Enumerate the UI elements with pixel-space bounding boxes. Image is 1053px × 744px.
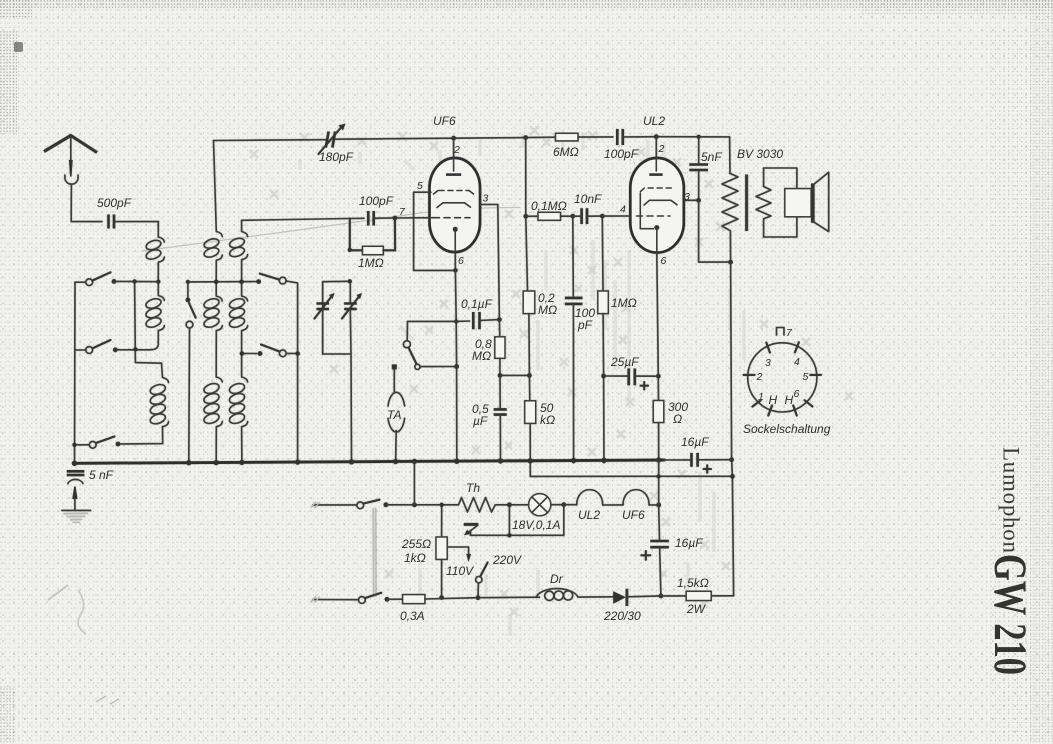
- heater UF6: [603, 504, 623, 506]
- line pin4: [523, 214, 528, 219]
- svg-text:Th: Th: [466, 481, 480, 495]
- line 1M vert: [601, 216, 604, 291]
- ground arrow: [72, 487, 77, 500]
- svg-text:H: H: [785, 393, 794, 407]
- svg-text:1kΩ: 1kΩ: [404, 551, 426, 565]
- UF6 anode: [437, 203, 471, 208]
- tube UF6: [430, 158, 481, 252]
- svg-text:6: 6: [458, 255, 464, 267]
- svg-text:Lumophon: Lumophon: [999, 447, 1024, 554]
- tube socket circle: [748, 343, 817, 412]
- power switch upper: [357, 502, 364, 509]
- diode 220/30: [613, 591, 626, 604]
- left rail: [74, 282, 77, 463]
- svg-text:6: 6: [661, 255, 667, 267]
- socket pin ticks: [744, 342, 822, 415]
- svg-text:UF6: UF6: [433, 114, 456, 128]
- resistor 1M UL2 grid: [598, 291, 609, 314]
- svg-text:16µF: 16µF: [681, 435, 709, 449]
- UF6 pin3 lead: [480, 205, 499, 320]
- UL2 pin2 lead: [655, 137, 657, 171]
- thermistor Th: [459, 498, 510, 513]
- wire antenna to 500pF: [71, 184, 102, 222]
- power switch lower: [359, 597, 366, 604]
- svg-text:3: 3: [684, 191, 690, 203]
- wire heater line: [386, 504, 459, 506]
- capacitor 16uF vertical: [650, 541, 669, 547]
- svg-text:GW 210: GW 210: [984, 554, 1036, 675]
- switch S3: [75, 444, 90, 446]
- tap 110V: [447, 547, 468, 555]
- svg-text:3: 3: [765, 357, 771, 369]
- resistor 0,8M: [498, 320, 500, 337]
- svg-text:kΩ: kΩ: [540, 413, 555, 427]
- resistor 1M grid: [350, 219, 363, 251]
- line UL2 cathode to bottom: [658, 460, 661, 541]
- pickup switch: [408, 320, 457, 322]
- svg-text:UF6: UF6: [622, 508, 645, 522]
- svg-text:0,1µF: 0,1µF: [461, 297, 493, 311]
- riser to bus: [413, 461, 415, 504]
- speaker magnet bar: [811, 183, 815, 222]
- svg-text:2: 2: [756, 371, 763, 383]
- svg-text:Ω: Ω: [673, 412, 682, 426]
- transformer T1 left winding: [203, 141, 223, 464]
- bus junction dots: [72, 461, 77, 466]
- fuse 0,3A: [387, 598, 403, 600]
- svg-text:100pF: 100pF: [604, 147, 639, 161]
- UL2 cathode: [654, 225, 659, 230]
- svg-text:110V: 110V: [446, 564, 474, 578]
- svg-text:2: 2: [658, 143, 665, 155]
- svg-text:25µF: 25µF: [610, 355, 639, 369]
- link wire to 0,2M line: [500, 374, 529, 376]
- transformer core: [745, 175, 748, 232]
- lamp shunt wire: [470, 505, 563, 536]
- top bus wire: [214, 138, 526, 141]
- svg-text:16µF: 16µF: [675, 536, 703, 550]
- node bracket top: [348, 279, 352, 283]
- resistor 6M: [526, 136, 556, 138]
- tube UL2: [630, 158, 684, 253]
- band switch lower arm: [242, 353, 257, 355]
- wire to choke: [478, 596, 540, 599]
- switch link dashed: [373, 508, 376, 597]
- main bus: [75, 460, 665, 463]
- svg-text:3: 3: [483, 193, 489, 205]
- grid node wire: [350, 217, 364, 219]
- trimmer capacitor 180pF: [326, 132, 335, 148]
- svg-text:5 nF: 5 nF: [89, 468, 114, 482]
- svg-text:BV 3030: BV 3030: [737, 147, 783, 161]
- transformer T1 right winding: [228, 220, 247, 463]
- svg-text:18V,0,1A: 18V,0,1A: [512, 518, 560, 532]
- coil L3: [118, 363, 169, 444]
- svg-text:1: 1: [758, 391, 764, 403]
- speaker driver: [785, 189, 811, 217]
- resistor 300: [653, 401, 664, 423]
- svg-text:255Ω: 255Ω: [401, 537, 431, 551]
- UL2 grid g2 dashed: [641, 188, 675, 192]
- wire S1 to coil: [114, 280, 158, 282]
- band switch middle arm: [187, 282, 189, 300]
- UF6 pin 2 lead: [453, 138, 455, 171]
- UL2 grid g1 dashed: [637, 215, 671, 217]
- capacitor 10nF: [582, 208, 587, 224]
- switch S2: [75, 349, 86, 351]
- svg-text:180pF: 180pF: [319, 150, 354, 164]
- node bus left of 6M: [523, 135, 528, 140]
- UF6 grid g1 dashed: [434, 217, 471, 219]
- TA terminal: [392, 364, 397, 369]
- svg-text:1MΩ: 1MΩ: [611, 296, 637, 310]
- svg-text:1,5kΩ: 1,5kΩ: [677, 576, 709, 590]
- svg-text:6MΩ: 6MΩ: [553, 145, 579, 159]
- svg-text:6: 6: [794, 388, 800, 400]
- svg-text:UL2: UL2: [643, 114, 665, 128]
- capacitor 100pF coupling: [617, 129, 623, 145]
- svg-text:Sockelschaltung: Sockelschaltung: [743, 422, 831, 436]
- resistor 0,2M: [523, 291, 535, 314]
- cathode line UL2: [657, 253, 659, 401]
- node junction: [156, 280, 160, 284]
- right vertical line: [731, 262, 734, 596]
- earth ground: [62, 509, 91, 511]
- mains cable lower: [313, 599, 358, 601]
- UF6 grid g2 dashed: [434, 191, 439, 195]
- svg-text:µF: µF: [473, 414, 488, 428]
- lamp 18V 0,1A: [509, 504, 528, 506]
- resistor 1,5k 2W: [661, 595, 686, 597]
- plus sign 25uF: [641, 382, 649, 390]
- capacitor 0,5uF: [499, 375, 501, 409]
- svg-text:2W: 2W: [686, 602, 707, 616]
- resistor 255/1k: [441, 505, 443, 537]
- svg-text:pF: pF: [577, 318, 593, 332]
- resistor 50k: [525, 401, 536, 424]
- speaker cone: [815, 172, 829, 231]
- coil L1: [145, 237, 164, 282]
- svg-text:5nF: 5nF: [701, 150, 722, 164]
- capacitor 0,1uF: [456, 320, 469, 322]
- TA pickup: [388, 392, 405, 406]
- svg-text:Dr: Dr: [550, 572, 564, 586]
- svg-text:100pF: 100pF: [359, 194, 394, 208]
- capacitor 16uF horizontal: [664, 459, 691, 461]
- svg-text:TA: TA: [387, 408, 401, 422]
- svg-text:0,3A: 0,3A: [400, 609, 425, 623]
- coil L2: [135, 282, 164, 350]
- svg-text:MΩ: MΩ: [538, 303, 557, 317]
- wire T1 secondary top to grid node: [242, 219, 350, 221]
- transformer BV3030 secondary: [756, 168, 771, 237]
- line 0,2M: [526, 138, 528, 291]
- mains cable upper: [313, 504, 357, 506]
- svg-text:H: H: [769, 393, 778, 407]
- switch 220V: [481, 563, 488, 577]
- svg-text:5: 5: [417, 180, 423, 192]
- variable capacitor right: [349, 281, 351, 303]
- top cap symbol pin7: [777, 328, 785, 336]
- UL2 pin3 lead: [684, 199, 699, 201]
- ground capacitor 5nF: [67, 471, 85, 475]
- UL2 anode: [644, 200, 677, 205]
- node 5nF branch: [697, 135, 701, 139]
- band switch wire: [188, 281, 259, 283]
- UF6 cathode: [453, 227, 458, 232]
- plus sign 16uF v: [641, 551, 650, 560]
- UF6 shield box: [414, 192, 456, 270]
- UL2 internal bracket: [640, 193, 653, 229]
- speaker frame: [764, 168, 797, 189]
- svg-text:220/30: 220/30: [603, 609, 641, 623]
- line 100pF vert: [572, 216, 575, 296]
- svg-text:10nF: 10nF: [574, 192, 602, 206]
- svg-text:4: 4: [620, 204, 626, 216]
- svg-text:UL2: UL2: [578, 508, 600, 522]
- svg-text:MΩ: MΩ: [472, 349, 491, 363]
- wire to coil chain: [157, 222, 159, 237]
- capacitor 100pF grid: [368, 211, 373, 226]
- svg-text:5: 5: [803, 371, 809, 383]
- svg-text:4: 4: [794, 356, 800, 368]
- svg-text:0,1MΩ: 0,1MΩ: [531, 199, 567, 213]
- switch S1: [75, 281, 86, 283]
- wire S2 contact: [115, 349, 135, 351]
- antenna: [44, 136, 97, 153]
- node UF6 pin2: [451, 136, 456, 141]
- cathode line: [455, 270, 456, 463]
- node UL2 pin2: [654, 134, 659, 139]
- choke Dr: [536, 589, 578, 601]
- resistor 0,1M: [538, 212, 561, 220]
- link wire from S1 node down: [135, 282, 162, 364]
- heater UL2: [564, 504, 577, 506]
- slider on Th: [464, 523, 479, 526]
- svg-text:220V: 220V: [492, 553, 522, 567]
- svg-text:500pF: 500pF: [97, 196, 132, 210]
- second rail: [530, 475, 732, 477]
- band switch upper arm: [260, 274, 280, 280]
- transformer BV3030 primary: [729, 137, 731, 174]
- capacitor 100pF detector: [565, 298, 583, 304]
- svg-text:1MΩ: 1MΩ: [358, 256, 384, 270]
- variable capacitor left: [322, 282, 324, 303]
- capacitor 500pF: [109, 215, 115, 229]
- tuning gang bracket: [323, 281, 351, 354]
- svg-text:2: 2: [453, 144, 460, 156]
- plus sign 16uF h: [704, 465, 712, 472]
- capacitor 25uF: [604, 375, 629, 377]
- capacitor 5nF: [698, 137, 700, 164]
